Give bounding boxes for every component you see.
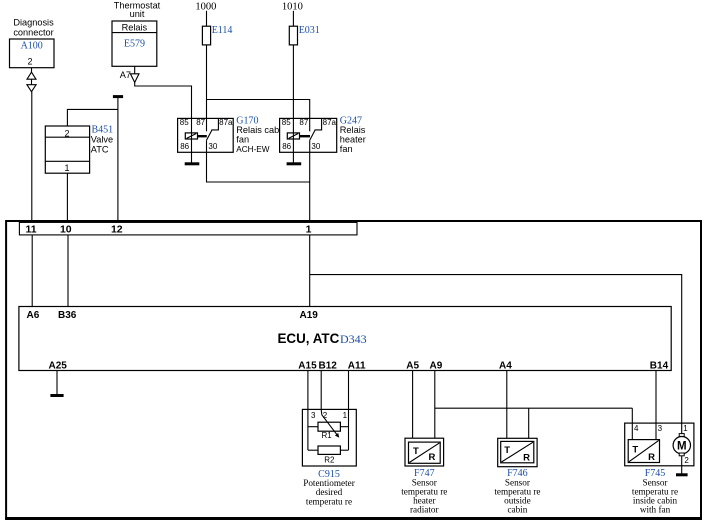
wire 1010 to fuse E031: [292, 11, 294, 26]
svg-text:B36: B36: [58, 310, 77, 321]
wire terminal to strip pin 12: [117, 98, 119, 222]
bus A9 to F746/F745: [435, 407, 633, 409]
pin 3 internal wire: [307, 409, 309, 450]
wire ECU A11 to C915 pin 1: [348, 371, 350, 410]
svg-text:A11: A11: [348, 360, 366, 371]
svg-text:85: 85: [180, 118, 189, 127]
B451 pin 1 divider: [45, 160, 89, 162]
fuse E114: [202, 25, 232, 45]
svg-text:87: 87: [196, 118, 205, 127]
wire ECU A5 to F747: [412, 371, 414, 439]
svg-text:R: R: [648, 452, 655, 463]
svg-text:T: T: [504, 445, 510, 456]
fuse E031: [289, 25, 320, 45]
sensor F746: [498, 438, 537, 466]
wire from A100 pin 2: [31, 68, 33, 73]
svg-text:temperatu re: temperatu re: [306, 496, 352, 506]
svg-text:E114: E114: [212, 25, 233, 36]
svg-text:unit: unit: [130, 9, 145, 19]
ground under G170 pin 86: [191, 152, 193, 163]
strip pin numbers 11 10 12 1: [25, 224, 311, 236]
svg-text:A19: A19: [300, 310, 319, 321]
wire strip pin 11 to ECU A6: [31, 235, 33, 307]
ECU box: [19, 307, 671, 371]
svg-text:B12: B12: [319, 360, 338, 371]
motor M: [673, 437, 690, 454]
svg-text:Relais cab: Relais cab: [236, 125, 279, 135]
relay G170 box: [178, 118, 234, 152]
E579 divider: [112, 32, 157, 34]
contact to 87a: [207, 118, 219, 140]
wire A100 to strip pin 11: [31, 92, 33, 223]
thermostat relay E579: [112, 21, 157, 66]
R2 stubs: [308, 449, 318, 451]
connector separation triangle (up): [27, 72, 36, 79]
svg-text:with fan: with fan: [640, 505, 671, 515]
wire between triangles: [31, 79, 33, 84]
coil: [185, 133, 197, 139]
label: Thermostat unit: [114, 1, 161, 19]
svg-text:10: 10: [60, 224, 72, 236]
svg-text:3: 3: [311, 411, 316, 420]
svg-text:2: 2: [27, 56, 32, 66]
connector A100: [10, 39, 55, 68]
svg-text:4: 4: [634, 424, 639, 433]
ECU pin labels: [27, 310, 669, 371]
svg-text:85: 85: [282, 118, 291, 127]
resistor R2: [318, 446, 340, 454]
wiper arrow from pin 2: [320, 409, 323, 414]
svg-text:87a: 87a: [219, 118, 233, 127]
wire 1000 to fuse E114: [206, 11, 208, 26]
svg-text:2: 2: [684, 456, 689, 465]
F746 element diagonal: [502, 442, 534, 462]
svg-text:1: 1: [683, 424, 688, 433]
wire ECU B12 to C915 pin 2: [320, 371, 322, 410]
svg-text:2: 2: [64, 128, 69, 138]
svg-text:ACH-EW: ACH-EW: [236, 145, 269, 154]
E579 box: [112, 21, 157, 66]
ground under ECU A25: [56, 371, 58, 396]
motor terminals: [679, 434, 684, 437]
label: Diagnosis connector: [13, 17, 54, 37]
wire G247 pin 30 to strip pin 1: [309, 152, 311, 222]
R1 stubs: [308, 426, 318, 428]
label F747: [401, 468, 447, 514]
pin 4 internal wire: [631, 423, 633, 440]
svg-text:1: 1: [64, 163, 69, 173]
B451 pin 2 divider: [45, 136, 89, 138]
pin 85-86 wire through coil: [191, 118, 193, 152]
ECU outer frame: [6, 221, 701, 519]
ground under F745 motor: [676, 473, 688, 476]
wire ECU A4 to F746: [506, 371, 508, 439]
svg-text:D343: D343: [340, 332, 367, 346]
svg-text:B14: B14: [650, 360, 669, 371]
coil: [287, 133, 299, 139]
F746 sensor element box: [501, 441, 534, 462]
pin 30 stub: [309, 140, 311, 152]
pin labels 85 87 87a 86 30: [282, 118, 337, 151]
mechanical link: [198, 135, 207, 137]
svg-text:A6: A6: [27, 310, 40, 321]
relay G247 box: [280, 118, 337, 152]
svg-text:A7: A7: [120, 70, 131, 80]
mechanical link: [300, 135, 311, 137]
svg-text:T: T: [632, 445, 638, 456]
wire strip pin 10 to ECU B36: [67, 235, 69, 307]
valve B451: [45, 125, 113, 174]
pin 87 stub: [206, 118, 208, 131]
potentiometer C915: [302, 409, 356, 466]
F746 outer box: [498, 438, 537, 466]
wire B451 pin 2 to node: [67, 109, 118, 126]
sensor F745 with fan: [625, 423, 694, 474]
svg-text:T: T: [413, 446, 419, 457]
svg-text:A15: A15: [298, 360, 317, 371]
pin 85-86 wire through coil: [292, 118, 294, 152]
wire A7 to relay G170 pin 85: [135, 82, 192, 118]
ground under G247 pin 86: [292, 152, 294, 163]
F745 pin labels 4 3 1: [634, 424, 688, 433]
connector separation triangle (down): [27, 85, 36, 92]
relay G247: [280, 118, 337, 152]
svg-text:ECU, ATC: ECU, ATC: [278, 331, 340, 346]
svg-text:R1: R1: [321, 431, 332, 440]
svg-text:A5: A5: [406, 360, 419, 371]
pin 30 stub: [206, 140, 208, 152]
wire branch to relay G247 pin 87: [207, 100, 310, 119]
B451 box: [45, 126, 89, 173]
contact to 87a: [310, 118, 322, 140]
pin 3 internal wire: [655, 423, 657, 440]
svg-text:Valve: Valve: [91, 135, 113, 145]
svg-text:R2: R2: [324, 456, 335, 465]
svg-text:E031: E031: [299, 25, 320, 36]
frame bottom thick edge: [5, 517, 702, 520]
wire B451 pin 1 to strip pin 10: [66, 173, 68, 222]
svg-text:fan: fan: [236, 135, 249, 145]
pin 87 stub: [309, 118, 311, 131]
F747 outer box: [405, 438, 444, 466]
F745 element diagonal: [629, 440, 659, 461]
svg-text:R: R: [523, 453, 530, 464]
branch bus to F745 pin 4: [631, 408, 633, 423]
relay G170: [178, 118, 234, 152]
svg-text:Relais: Relais: [340, 125, 366, 135]
svg-text:1000: 1000: [195, 1, 216, 12]
wire fuse E031 to relay G247 pin 85: [292, 45, 294, 119]
strip box: [19, 222, 357, 235]
svg-text:87a: 87a: [323, 118, 337, 127]
svg-text:R: R: [428, 452, 435, 463]
pin 2 wire: [681, 456, 683, 474]
svg-text:A9: A9: [430, 360, 443, 371]
svg-text:radiator: radiator: [410, 505, 439, 515]
svg-text:30: 30: [208, 142, 217, 151]
pin 1 internal wire: [348, 409, 350, 450]
svg-text:heater: heater: [340, 135, 366, 145]
svg-text:ATC: ATC: [91, 144, 109, 154]
svg-text:M: M: [677, 440, 687, 452]
svg-text:cabin: cabin: [507, 505, 527, 515]
C915 pin labels 3 2 1: [311, 411, 348, 420]
label G247: [340, 116, 366, 155]
sensor F747: [405, 438, 444, 466]
label C915: [303, 469, 355, 506]
label G170: [236, 116, 279, 154]
wire ECU B14 to F745 pin 3: [655, 371, 657, 424]
svg-text:connector: connector: [13, 28, 53, 38]
F747 element diagonal: [409, 443, 439, 463]
connector strip: [19, 222, 357, 235]
wire branch pin 1 to F745 pin 1: [310, 275, 682, 434]
svg-text:E579: E579: [124, 38, 145, 49]
svg-text:Diagnosis: Diagnosis: [13, 17, 54, 27]
wire strip pin 1 to ECU A19: [309, 235, 311, 307]
svg-text:30: 30: [311, 142, 320, 151]
svg-text:1: 1: [343, 411, 348, 420]
svg-text:A25: A25: [49, 360, 68, 371]
svg-text:86: 86: [282, 142, 291, 151]
svg-text:Relais: Relais: [122, 22, 148, 32]
svg-text:12: 12: [111, 224, 123, 236]
wire ECU A9 to F747: [434, 371, 436, 439]
sensor element: [628, 440, 659, 463]
svg-text:1: 1: [306, 224, 312, 236]
label F745: [632, 468, 678, 514]
terminal bar node: [113, 95, 123, 98]
resistor R1: [318, 422, 340, 431]
wire ECU A15 to C915 pin 3: [307, 371, 309, 410]
C915 box: [302, 409, 356, 466]
svg-text:3: 3: [658, 424, 663, 433]
svg-text:11: 11: [25, 224, 36, 236]
svg-text:A100: A100: [21, 40, 43, 51]
svg-text:87: 87: [299, 118, 308, 127]
wire G170 pin 30 to bus: [207, 152, 310, 182]
svg-text:1010: 1010: [282, 1, 303, 12]
F747 sensor element box: [409, 442, 441, 463]
F745 outer box: [625, 423, 694, 466]
svg-text:fan: fan: [340, 144, 353, 154]
ECU, ATC D343: [19, 307, 671, 372]
pin labels 85 87 87a 86 30: [180, 118, 233, 151]
label F746: [494, 468, 540, 514]
pin A7: [120, 66, 139, 82]
svg-text:86: 86: [180, 142, 189, 151]
wire fuse E114 to relay G170 pin 87: [206, 45, 208, 119]
branch bus to F746 right pin: [528, 408, 530, 438]
svg-text:A4: A4: [499, 360, 512, 371]
